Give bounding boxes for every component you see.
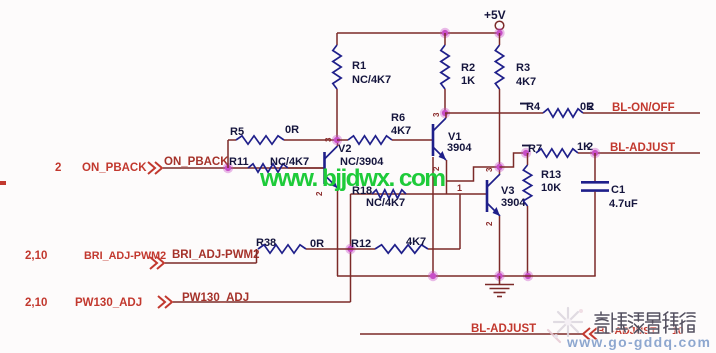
svg-text:www. bjjdwx. com: www. bjjdwx. com [259, 165, 445, 192]
svg-text:R1: R1 [352, 60, 366, 72]
svg-text:3: 3 [432, 112, 441, 117]
resistor R18 [372, 190, 406, 198]
watermark chinese 空调液晶维修 [595, 312, 695, 333]
wire R3 bottom lead [499, 89, 501, 167]
junction V2 collector / R1 / R5 / R6 [332, 135, 342, 145]
svg-text:BRI_ADJ-PWM2: BRI_ADJ-PWM2 [172, 249, 260, 261]
wire BRI row [165, 262, 257, 264]
resistor R38 [258, 245, 306, 253]
svg-text:V2: V2 [338, 143, 351, 155]
port BRI_ADJ-PWM2 >> [150, 257, 164, 269]
resistor R13 [523, 165, 531, 206]
svg-text:R13: R13 [541, 169, 561, 181]
svg-text:R12: R12 [351, 238, 371, 250]
svg-text:2: 2 [588, 101, 594, 113]
wire R13 top lead [527, 153, 529, 165]
edge tick [0, 181, 6, 185]
svg-text:3: 3 [324, 137, 333, 142]
junction rail V3 emitter / ground [494, 271, 504, 281]
junction R3 top / +5V [494, 28, 504, 38]
resistor R7 [536, 149, 578, 157]
svg-text:0R: 0R [310, 238, 324, 250]
ground symbol [485, 276, 514, 297]
svg-text:4.7uF: 4.7uF [609, 198, 638, 210]
wire R2 top lead [444, 33, 446, 45]
wire R38 right lead [306, 248, 351, 250]
junction V1 collector / R2 [440, 108, 450, 118]
capacitor C1 [581, 182, 609, 190]
resistor R6 [348, 136, 392, 144]
wire R5 left lead [228, 139, 236, 141]
+5V power port [484, 8, 506, 30]
transistor V1 3904 [433, 118, 446, 160]
svg-text:3904: 3904 [447, 142, 472, 154]
junction R7 / R13 [521, 148, 531, 158]
junction R38 / R12 / PW130 [345, 244, 355, 254]
wire R3 top lead [499, 33, 501, 45]
resistor R12 [375, 245, 428, 253]
svg-text:2,10: 2,10 [25, 250, 47, 262]
svg-text:BL-ON/OFF: BL-ON/OFF [612, 102, 675, 114]
svg-text:ON_PBACK: ON_PBACK [164, 156, 229, 168]
wire R5 right lead [284, 139, 337, 141]
junction R13 ground [523, 271, 533, 281]
wire V3 emitter to ground [499, 216, 501, 276]
wire R6 to V1 base [392, 139, 433, 141]
svg-text:1K: 1K [461, 75, 475, 87]
wire V1 emitter jog to V3 collector node [447, 167, 500, 181]
wire R2 bottom lead [444, 89, 446, 113]
svg-text:R6: R6 [391, 112, 405, 124]
wire ON_PBACK row [163, 167, 324, 169]
wire base row to R12 [459, 194, 461, 249]
watermark sparkle [548, 308, 583, 342]
svg-text:PW130_ADJ: PW130_ADJ [182, 292, 249, 304]
junction R2 top [440, 28, 450, 38]
wire C1 bottom lead [594, 192, 596, 276]
resistor R2 [441, 45, 449, 89]
resistor R3 [495, 45, 503, 89]
wire R11 to V2 base [288, 167, 324, 169]
wire R1 top lead [336, 33, 338, 45]
wire +5V stem [499, 30, 501, 33]
wire ground rail [337, 275, 596, 277]
wire V1 collector to R4 [445, 112, 543, 114]
resistor R4 [543, 109, 583, 117]
svg-text:3: 3 [485, 167, 494, 172]
svg-text:R2: R2 [461, 62, 475, 74]
wire top rail [337, 32, 500, 34]
wire R5-R11 left link [227, 140, 229, 168]
wire bottom BL-ADJUST [360, 333, 583, 335]
svg-text:BL-ADJUST: BL-ADJUST [471, 323, 536, 335]
svg-text:V3: V3 [501, 185, 514, 197]
wire R4 to BL-ON/OFF [583, 112, 700, 114]
svg-text:3904: 3904 [501, 197, 526, 209]
svg-text:4K7: 4K7 [406, 236, 426, 248]
svg-text:NC/4K7: NC/4K7 [352, 74, 391, 86]
svg-text:NC/4K7: NC/4K7 [366, 197, 405, 209]
wire V1 emitter down [446, 160, 448, 194]
wire R13 bottom lead [527, 206, 529, 276]
wire R12 right lead [428, 248, 460, 250]
svg-text:2: 2 [485, 221, 494, 226]
svg-text:2,10: 2,10 [25, 297, 47, 309]
wire R12 left lead [351, 248, 376, 250]
wire V2 collector stub [337, 140, 339, 146]
wire BRI step up [256, 249, 258, 263]
svg-text:PW130_ADJ: PW130_ADJ [75, 297, 142, 309]
transistor V3 3904 [487, 174, 500, 216]
svg-text:4K7: 4K7 [516, 76, 536, 88]
svg-text:10K: 10K [541, 182, 561, 194]
wire V3 collector stub [499, 167, 501, 174]
transistor V2 NC/3904 [325, 146, 338, 188]
wire R1 bottom lead [336, 89, 338, 140]
svg-text:0R: 0R [285, 124, 299, 136]
junction C1 top [590, 148, 600, 158]
wire C1 top lead [594, 153, 596, 181]
resistor R5 [236, 136, 284, 144]
wire PW130 row [173, 301, 351, 303]
svg-text:www.go-gddq.com: www.go-gddq.com [566, 334, 711, 350]
port ON_PBACK >> [148, 162, 162, 174]
port PW130_ADJ >> [158, 296, 172, 308]
wire R7 to BL-ADJUST [578, 152, 700, 154]
svg-text:R11: R11 [229, 156, 249, 168]
svg-text:C1: C1 [611, 184, 625, 196]
svg-text:ON_PBACK: ON_PBACK [82, 162, 147, 174]
wire R18 left vertical [350, 194, 352, 302]
resistor R1 [333, 45, 341, 89]
svg-text:+5V: +5V [484, 8, 506, 22]
svg-text:BL-ADJUST: BL-ADJUST [610, 142, 675, 154]
junction rail R18node [428, 271, 438, 281]
wire base row y194 [351, 193, 488, 195]
wire V3 collector to R7 node [500, 153, 527, 167]
svg-text:R3: R3 [516, 62, 530, 74]
wire R6 left lead [337, 139, 348, 141]
svg-text:2: 2 [55, 162, 61, 174]
junction R5/R11 left [223, 163, 233, 173]
port BL-ADJUST << [583, 328, 597, 340]
resistor R11 [248, 164, 288, 172]
wire V2 emitter down [337, 188, 339, 276]
wire V1 collector stub [445, 113, 447, 118]
svg-text:1: 1 [457, 183, 462, 193]
junction V3 collector node [494, 162, 504, 172]
wire R18 node to ground rail [432, 157, 434, 276]
svg-text:4K7: 4K7 [391, 125, 411, 137]
